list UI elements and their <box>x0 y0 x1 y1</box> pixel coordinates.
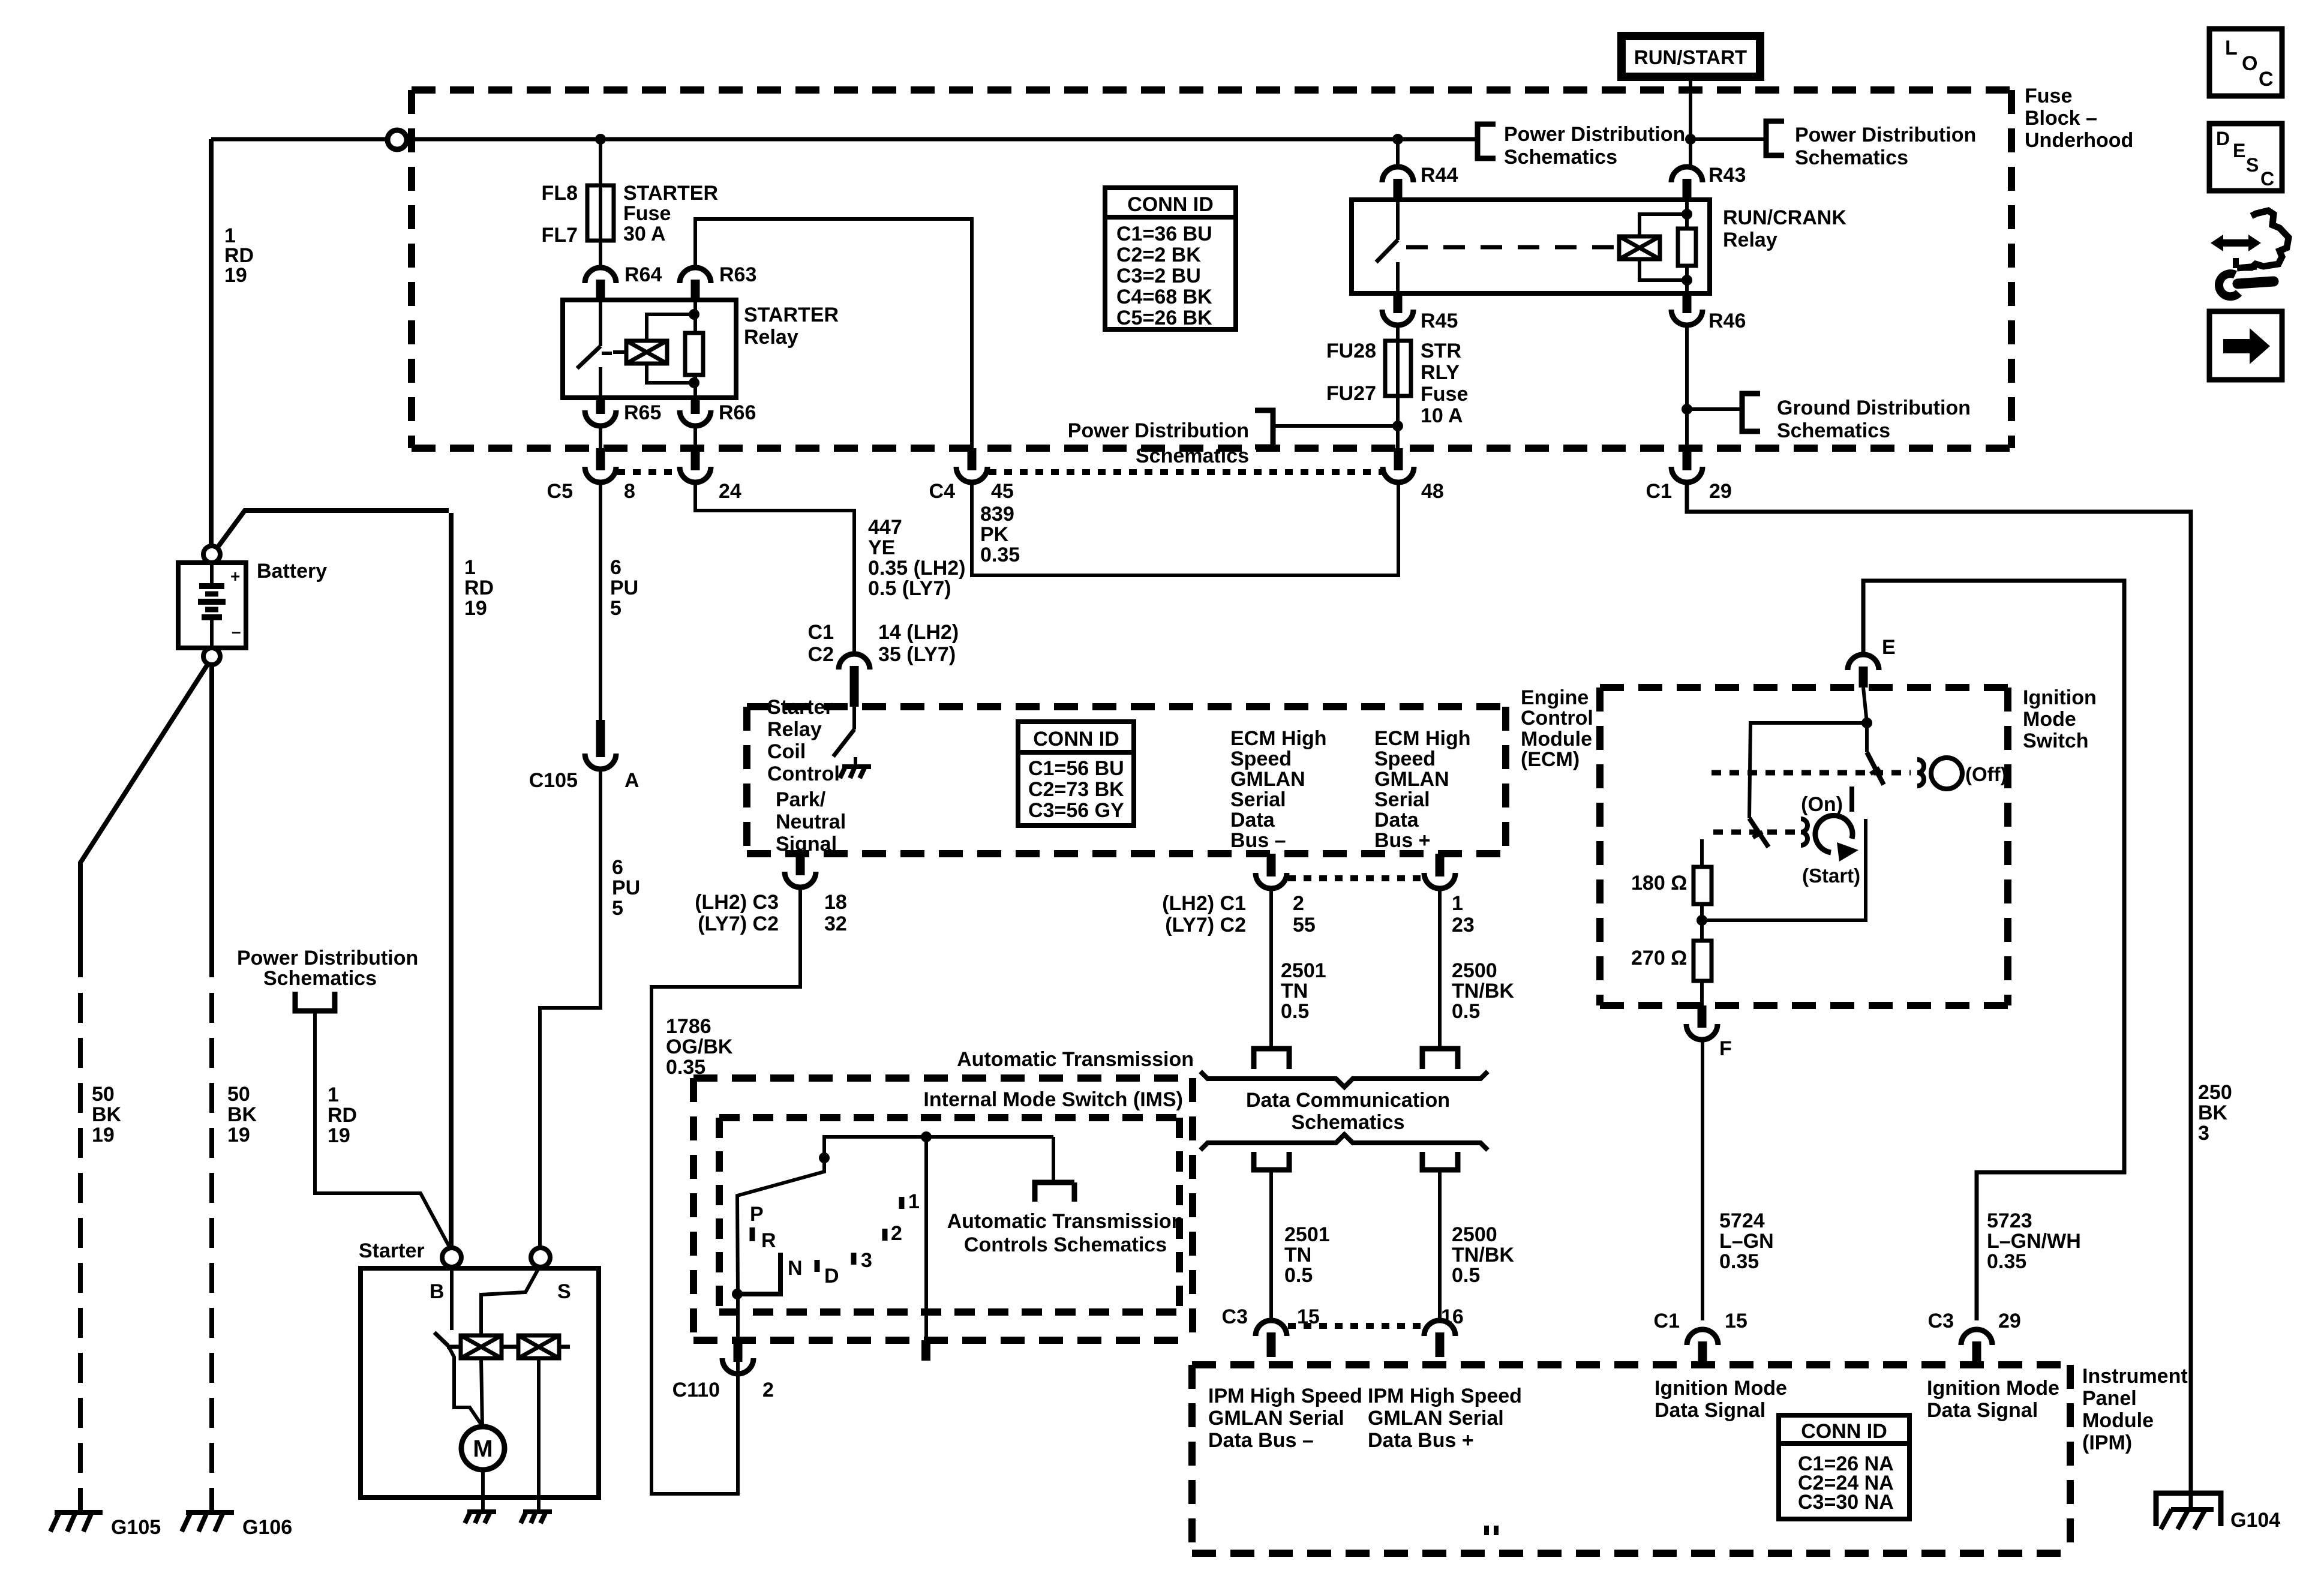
N contact <box>737 1253 780 1294</box>
svg-text:Internal Mode Switch (IMS): Internal Mode Switch (IMS) <box>923 1088 1183 1111</box>
svg-text:RD: RD <box>464 577 494 599</box>
brace lower <box>1200 1134 1488 1150</box>
svg-text:Bus +: Bus + <box>1374 829 1431 852</box>
svg-text:(Off): (Off) <box>1965 763 2007 785</box>
svg-text:Serial: Serial <box>1230 788 1286 811</box>
svg-text:1: 1 <box>464 556 476 579</box>
svg-text:R: R <box>761 1229 776 1252</box>
svg-text:R43: R43 <box>1709 164 1746 187</box>
RUN/CRANK Relay box <box>1352 200 1710 293</box>
DESC box <box>2209 124 2282 191</box>
svg-text:(LY7) C2: (LY7) C2 <box>1165 914 1246 936</box>
svg-text:F: F <box>1719 1037 1732 1060</box>
svg-text:30 A: 30 A <box>623 223 666 245</box>
starter relay resistor <box>685 333 703 375</box>
battery terminal circle - <box>203 648 220 665</box>
svg-text:N: N <box>788 1257 803 1280</box>
svg-text:Control: Control <box>1521 707 1593 730</box>
svg-text:Power Distribution: Power Distribution <box>1504 123 1685 146</box>
svg-text:Panel: Panel <box>2082 1387 2137 1410</box>
svg-text:Data Signal: Data Signal <box>1927 1399 2038 1422</box>
svg-text:Ignition Mode: Ignition Mode <box>1655 1377 1787 1400</box>
svg-text:19: 19 <box>328 1124 350 1147</box>
svg-text:TN/BK: TN/BK <box>1452 980 1514 1002</box>
svg-text:2500: 2500 <box>1452 959 1497 982</box>
svg-text:Schematics: Schematics <box>263 967 377 990</box>
svg-text:50: 50 <box>92 1083 115 1106</box>
svg-text:G105: G105 <box>111 1516 161 1539</box>
CONN ID table (underhood fuse block) <box>1105 188 1236 329</box>
svg-text:STARTER: STARTER <box>623 182 718 205</box>
wire 6 PU 5 below C105 <box>540 770 600 1248</box>
svg-text:PK: PK <box>980 523 1009 546</box>
svg-text:L–GN/WH: L–GN/WH <box>1987 1230 2081 1253</box>
connector C5 pin 8 <box>585 448 616 482</box>
svg-text:C2=2 BK: C2=2 BK <box>1116 244 1201 266</box>
wire R46 down to C1-29 <box>1685 326 1689 450</box>
svg-text:(LH2) C3: (LH2) C3 <box>695 891 779 914</box>
svg-text:TN: TN <box>1281 980 1308 1002</box>
svg-text:RD: RD <box>328 1104 357 1127</box>
Internal Mode Switch dashed box <box>719 1118 1179 1312</box>
ignition switch common wire <box>1863 688 1867 752</box>
wire 6 PU 5 <box>599 484 602 740</box>
svg-text:GMLAN: GMLAN <box>1230 768 1305 791</box>
node: junction on RUN/START wire <box>1685 134 1696 145</box>
wire to AT controls reference <box>1052 1137 1055 1182</box>
off blade <box>1867 752 1884 785</box>
svg-text:L–GN: L–GN <box>1719 1230 1774 1253</box>
svg-text:(LH2) C1: (LH2) C1 <box>1162 892 1246 915</box>
node <box>1682 404 1692 415</box>
connector ECM GMLAN bus + pin 1/23 <box>1424 854 1455 888</box>
270 ohm resistor <box>1700 920 1704 941</box>
svg-text:Battery: Battery <box>257 560 327 583</box>
fuse FL8/FL7 STARTER Fuse 30A <box>587 185 614 241</box>
node <box>1682 209 1692 220</box>
wrench <box>2219 274 2274 296</box>
connector F <box>1686 1005 1718 1040</box>
node <box>689 377 699 388</box>
svg-text:Coil: Coil <box>767 740 806 763</box>
connector C110 pin 2 <box>722 1340 753 1374</box>
starter relay switch <box>577 300 612 398</box>
svg-text:TN: TN <box>1284 1244 1311 1266</box>
connector pin 24 <box>680 448 711 482</box>
wire to PDS reference #2 <box>1691 137 1766 141</box>
svg-text:48: 48 <box>1421 480 1444 503</box>
dotted connector line C5 <box>617 469 678 475</box>
svg-text:Relay: Relay <box>767 718 822 741</box>
wire 2500 TN/BK 0.5 lower <box>1438 1170 1442 1320</box>
svg-text:14 (LH2): 14 (LH2) <box>878 621 959 644</box>
Starter box <box>361 1268 599 1497</box>
bus bar lower left <box>1254 1152 1289 1170</box>
svg-text:Automatic Transmission: Automatic Transmission <box>957 1048 1194 1071</box>
connector IPM C3 pin 29 <box>1961 1329 1992 1365</box>
bus bar upper right <box>1422 1049 1458 1069</box>
dotted connector line C4 <box>989 469 1382 475</box>
svg-text:C105: C105 <box>529 769 578 792</box>
svg-text:Speed: Speed <box>1230 748 1292 770</box>
run/crank coil/resistor loop <box>1640 200 1687 293</box>
svg-text:FU27: FU27 <box>1326 382 1376 405</box>
wire battery - diagonal to G105 drop <box>80 664 208 977</box>
svg-text:PU: PU <box>612 876 640 899</box>
svg-text:Power Distribution: Power Distribution <box>1068 419 1249 442</box>
svg-text:C3=2 BU: C3=2 BU <box>1116 265 1201 287</box>
svg-text:10 A: 10 A <box>1421 404 1463 427</box>
start contact hook <box>1801 819 1807 845</box>
connector R44 <box>1382 167 1413 200</box>
IMS selector wire <box>737 1137 1053 1378</box>
svg-text:15: 15 <box>1297 1305 1320 1328</box>
svg-text:Power Distribution: Power Distribution <box>237 947 418 969</box>
svg-text:23: 23 <box>1452 914 1475 936</box>
svg-text:L: L <box>2225 37 2238 59</box>
svg-text:Instrument: Instrument <box>2082 1365 2188 1388</box>
svg-text:E: E <box>1882 636 1896 659</box>
svg-text:Neutral: Neutral <box>776 810 846 833</box>
battery <box>178 563 246 648</box>
svg-text:CONN ID: CONN ID <box>1801 1420 1887 1443</box>
svg-text:GMLAN: GMLAN <box>1374 768 1449 791</box>
arrow box <box>2209 311 2282 380</box>
svg-text:19: 19 <box>227 1124 250 1146</box>
svg-text:8: 8 <box>624 480 635 503</box>
run/crank relay resistor <box>1678 229 1696 266</box>
wire FU27 down to 48 <box>1396 396 1400 450</box>
svg-text:Power Distribution: Power Distribution <box>1795 124 1976 146</box>
svg-text:Data Communication: Data Communication <box>1246 1089 1450 1112</box>
svg-text:Schematics: Schematics <box>1504 146 1617 169</box>
battery terminal circle + <box>203 546 220 563</box>
svg-text:250: 250 <box>2198 1081 2232 1104</box>
svg-text:STARTER: STARTER <box>744 304 839 326</box>
wire 839 PK 0.35 (C4 to 48) <box>972 484 1398 575</box>
node <box>1861 718 1872 728</box>
wire 447 YE <box>695 484 854 655</box>
svg-text:C: C <box>2259 68 2274 91</box>
wire battery - to G106 drop <box>209 665 214 977</box>
dashed ground wire 50 BK 19 (G105) <box>78 993 83 1512</box>
IMS pin 1 wire <box>924 1137 928 1340</box>
svg-text:A: A <box>624 769 639 792</box>
svg-text:Ignition: Ignition <box>2023 686 2097 709</box>
wire C1-29 to G104 via right side <box>1687 484 2191 1509</box>
svg-text:35 (LY7): 35 (LY7) <box>878 643 956 666</box>
bus bar upper left <box>1254 1049 1289 1069</box>
mechanical linkage dashed <box>1406 245 1619 250</box>
starter relay coil/resistor loop <box>647 300 695 398</box>
connector R63 <box>680 268 711 300</box>
wire 1 RD 19 to starter B <box>315 1011 451 1249</box>
open circle at fuse block boundary <box>388 130 407 149</box>
starter motor M <box>461 1427 505 1470</box>
svg-text:C110: C110 <box>672 1379 720 1401</box>
run/crank relay coil <box>1619 236 1660 259</box>
reference bracket: Power Distribution Schematics (fuse) <box>1255 410 1273 447</box>
connector R46 <box>1671 293 1703 325</box>
node <box>1682 275 1692 286</box>
svg-text:R66: R66 <box>719 401 756 424</box>
svg-text:(Start): (Start) <box>1802 864 1860 887</box>
ground G106 <box>182 1512 234 1532</box>
svg-text:5724: 5724 <box>1719 1209 1765 1232</box>
connector R66 <box>680 398 711 426</box>
svg-text:C1: C1 <box>808 621 834 644</box>
svg-text:18: 18 <box>824 891 847 914</box>
svg-text:TN/BK: TN/BK <box>1452 1244 1514 1266</box>
svg-text:C3: C3 <box>1928 1310 1954 1332</box>
starter solenoid coil 1 <box>461 1335 502 1358</box>
svg-text:1: 1 <box>908 1190 920 1213</box>
ground (ECM internal) <box>840 767 871 778</box>
svg-text:D: D <box>2216 128 2230 149</box>
reference bracket: Automatic Transmission Controls Schematics <box>1035 1182 1074 1202</box>
svg-text:2501: 2501 <box>1284 1223 1330 1246</box>
svg-text:Schematics: Schematics <box>1136 445 1249 467</box>
svg-text:G106: G106 <box>242 1516 292 1539</box>
svg-text:C3: C3 <box>1222 1305 1248 1328</box>
svg-text:Ignition Mode: Ignition Mode <box>1927 1377 2059 1400</box>
svg-text:C3=56 GY: C3=56 GY <box>1028 799 1124 822</box>
fuse FU28/FU27 STR RLY Fuse 10A <box>1385 341 1411 396</box>
node <box>689 309 699 320</box>
svg-text:Switch: Switch <box>2023 730 2089 752</box>
svg-text:1: 1 <box>328 1083 339 1106</box>
svg-text:1786: 1786 <box>666 1015 711 1038</box>
svg-text:R46: R46 <box>1709 310 1746 332</box>
position tick R <box>750 1227 755 1241</box>
svg-text:0.35: 0.35 <box>1987 1250 2026 1273</box>
connector IPM C1 pin 15 <box>1687 1329 1718 1365</box>
connector IPM pin 16 <box>1424 1320 1455 1357</box>
ground (starter motor) <box>465 1512 496 1523</box>
coil link dashes <box>503 1345 517 1349</box>
connector R64 <box>585 268 616 300</box>
svg-text:C5: C5 <box>547 480 573 503</box>
svg-text:Controls Schematics: Controls Schematics <box>964 1233 1167 1256</box>
svg-text:5: 5 <box>612 897 623 920</box>
connector R45 <box>1382 293 1413 325</box>
svg-text:C1: C1 <box>1654 1310 1680 1332</box>
coil1 lead down to motor <box>481 1358 482 1427</box>
svg-text:0.5: 0.5 <box>1452 1000 1480 1023</box>
svg-text:C2: C2 <box>808 643 834 666</box>
svg-text:Schematics: Schematics <box>1795 146 1908 169</box>
svg-text:0.35: 0.35 <box>980 544 1020 566</box>
svg-text:C4=68 BK: C4=68 BK <box>1116 286 1212 308</box>
svg-text:2: 2 <box>891 1222 902 1245</box>
position tick 3 <box>851 1253 857 1265</box>
svg-text:29: 29 <box>1998 1310 2021 1332</box>
svg-text:+: + <box>230 567 240 586</box>
svg-text:PU: PU <box>610 577 638 599</box>
wire 5724 L-GN 0.35 <box>1701 1041 1704 1320</box>
svg-text:0.5: 0.5 <box>1281 1000 1309 1023</box>
svg-text:180 Ω: 180 Ω <box>1631 872 1687 894</box>
svg-text:Module: Module <box>2082 1409 2154 1432</box>
svg-text:Automatic Transmission: Automatic Transmission <box>947 1210 1184 1233</box>
node <box>921 1131 932 1142</box>
starter S feed to solenoid coils <box>481 1267 539 1337</box>
bus bar lower right <box>1422 1152 1458 1170</box>
svg-text:C5=26 BK: C5=26 BK <box>1116 307 1212 329</box>
off contact hook <box>1917 760 1924 786</box>
svg-text:C3=30 NA: C3=30 NA <box>1798 1491 1894 1514</box>
node <box>819 1152 830 1163</box>
svg-text:Underhood: Underhood <box>2025 129 2133 152</box>
svg-text:Serial: Serial <box>1374 788 1430 811</box>
svg-text:RUN/CRANK: RUN/CRANK <box>1723 206 1846 229</box>
svg-text:3: 3 <box>2198 1122 2209 1145</box>
on tick <box>1849 786 1854 812</box>
svg-text:RLY: RLY <box>1421 361 1460 384</box>
starter solenoid coil 2 <box>518 1335 559 1358</box>
wire R45 to fuse <box>1396 326 1400 341</box>
dashed ground wire 50 BK 19 (G106) <box>209 993 214 1512</box>
starter relay coil control driver switch <box>833 707 855 767</box>
run/crank relay switch <box>1376 200 1398 293</box>
svg-text:45: 45 <box>991 480 1014 503</box>
svg-text:Starter: Starter <box>767 696 833 719</box>
svg-text:Fuse: Fuse <box>2025 85 2072 107</box>
reference bracket: Power Distribution Schematics (battery) <box>295 992 335 1011</box>
connector R65 <box>585 398 616 426</box>
ground G105 <box>50 1512 103 1532</box>
svg-text:3: 3 <box>861 1249 872 1272</box>
dotted connector line ECM GMLAN <box>1288 875 1423 881</box>
svg-text:YE: YE <box>868 536 895 559</box>
svg-text:0.5 (LY7): 0.5 (LY7) <box>868 577 951 600</box>
wire: left vertical to battery <box>209 139 214 546</box>
node: junction above FL8 <box>595 134 606 145</box>
svg-text:CONN ID: CONN ID <box>1033 728 1119 751</box>
svg-text:IPM High Speed: IPM High Speed <box>1208 1385 1362 1407</box>
svg-text:(On): (On) <box>1801 793 1843 816</box>
start rotate arrow <box>1815 815 1852 852</box>
connector pin 48 <box>1383 448 1414 482</box>
svg-text:2: 2 <box>762 1379 774 1401</box>
svg-text:E: E <box>2233 140 2245 161</box>
connector ECM GMLAN bus - pin 2/55 <box>1256 854 1287 888</box>
starter relay coil <box>626 341 667 364</box>
svg-text:447: 447 <box>868 516 902 539</box>
svg-text:S: S <box>2246 154 2259 176</box>
quote mark in IPM box <box>1484 1526 1489 1535</box>
svg-text:16: 16 <box>1441 1305 1464 1328</box>
connector C3/C2 park/neutral signal pin 18/32 <box>785 854 816 887</box>
start branch wire <box>1702 819 1866 920</box>
svg-text:D: D <box>824 1265 839 1287</box>
connector C1/C2 starter relay coil control <box>839 654 870 707</box>
svg-text:M: M <box>473 1436 493 1462</box>
motor ground wire <box>481 1470 485 1512</box>
reference bracket: Power Distribution Schematics (rail) <box>1478 124 1496 158</box>
svg-text:FU28: FU28 <box>1326 340 1376 362</box>
svg-text:Fuse: Fuse <box>1421 383 1468 406</box>
svg-text:Block –: Block – <box>2025 107 2097 130</box>
ground (starter solenoid) <box>521 1512 552 1523</box>
svg-text:0.5: 0.5 <box>1284 1264 1313 1287</box>
svg-text:R65: R65 <box>624 401 661 424</box>
svg-text:Data Signal: Data Signal <box>1655 1399 1765 1422</box>
svg-text:GMLAN Serial: GMLAN Serial <box>1208 1407 1344 1430</box>
wire 1786 OG/BK 0.35 <box>651 888 800 1494</box>
position tick D <box>815 1260 820 1272</box>
svg-text:ECM High: ECM High <box>1374 727 1471 750</box>
svg-text:CONN ID: CONN ID <box>1127 193 1214 216</box>
svg-text:FL8: FL8 <box>542 182 578 205</box>
svg-text:19: 19 <box>92 1124 115 1146</box>
position tick 2 <box>882 1229 888 1241</box>
node <box>1392 421 1403 431</box>
svg-text:BK: BK <box>92 1103 122 1126</box>
svg-text:2500: 2500 <box>1452 1223 1497 1246</box>
svg-text:Control: Control <box>767 763 840 785</box>
off dashed line <box>1712 770 1911 776</box>
resistor 270 ohm <box>1694 941 1712 981</box>
svg-text:270 Ω: 270 Ω <box>1631 947 1687 969</box>
svg-text:19: 19 <box>224 264 247 287</box>
wire 2500 TN/BK 0.5 upper <box>1438 890 1442 1049</box>
wire E feed <box>1863 581 2124 1320</box>
Instrument Panel Module (IPM) dashed box <box>1192 1365 2070 1553</box>
svg-text:Schematics: Schematics <box>1292 1111 1405 1134</box>
wire R65 to C5 <box>599 427 602 450</box>
svg-text:Data: Data <box>1230 809 1275 831</box>
node <box>1697 915 1707 926</box>
svg-text:C: C <box>2260 168 2274 190</box>
start dashed line <box>1713 830 1797 835</box>
svg-text:Park/: Park/ <box>776 788 826 811</box>
svg-text:5: 5 <box>610 597 621 620</box>
svg-text:Ground Distribution: Ground Distribution <box>1777 397 1971 419</box>
svg-text:P: P <box>750 1203 764 1226</box>
hand/wrench icon <box>2211 211 2289 268</box>
svg-text:Relay: Relay <box>1723 229 1777 251</box>
svg-text:2501: 2501 <box>1281 959 1326 982</box>
coil left lead <box>613 350 626 354</box>
wire from RUN/START down <box>1689 77 1692 166</box>
wire to PDS reference #3 <box>1273 424 1398 428</box>
connector C105 pin A <box>585 720 616 769</box>
wire 2501 TN 0.5 lower <box>1269 1170 1273 1320</box>
svg-text:Speed: Speed <box>1374 748 1436 770</box>
node <box>732 1289 743 1299</box>
svg-text:RUN/START: RUN/START <box>1634 46 1747 68</box>
connector C4 pin 45 <box>956 448 987 482</box>
svg-text:Data: Data <box>1374 809 1419 831</box>
svg-text:Module: Module <box>1521 728 1592 751</box>
connector C1 pin 29 <box>1671 448 1703 482</box>
svg-text:OG/BK: OG/BK <box>666 1035 733 1058</box>
svg-text:24: 24 <box>719 480 741 503</box>
wire rail to fuse <box>599 139 602 185</box>
Ignition Mode Switch dashed box <box>1600 688 2008 1005</box>
svg-text:O: O <box>2242 52 2257 75</box>
start blade <box>1749 818 1768 847</box>
svg-text:0.5: 0.5 <box>1452 1264 1480 1287</box>
svg-text:0.35: 0.35 <box>1719 1250 1759 1273</box>
svg-text:55: 55 <box>1293 914 1316 936</box>
svg-text:2: 2 <box>1293 892 1304 915</box>
svg-text:32: 32 <box>824 912 847 935</box>
ground G104 <box>2156 1493 2221 1526</box>
wire: battery positive rail 1 RD 19 <box>211 137 1478 142</box>
svg-text:R64: R64 <box>624 263 662 286</box>
